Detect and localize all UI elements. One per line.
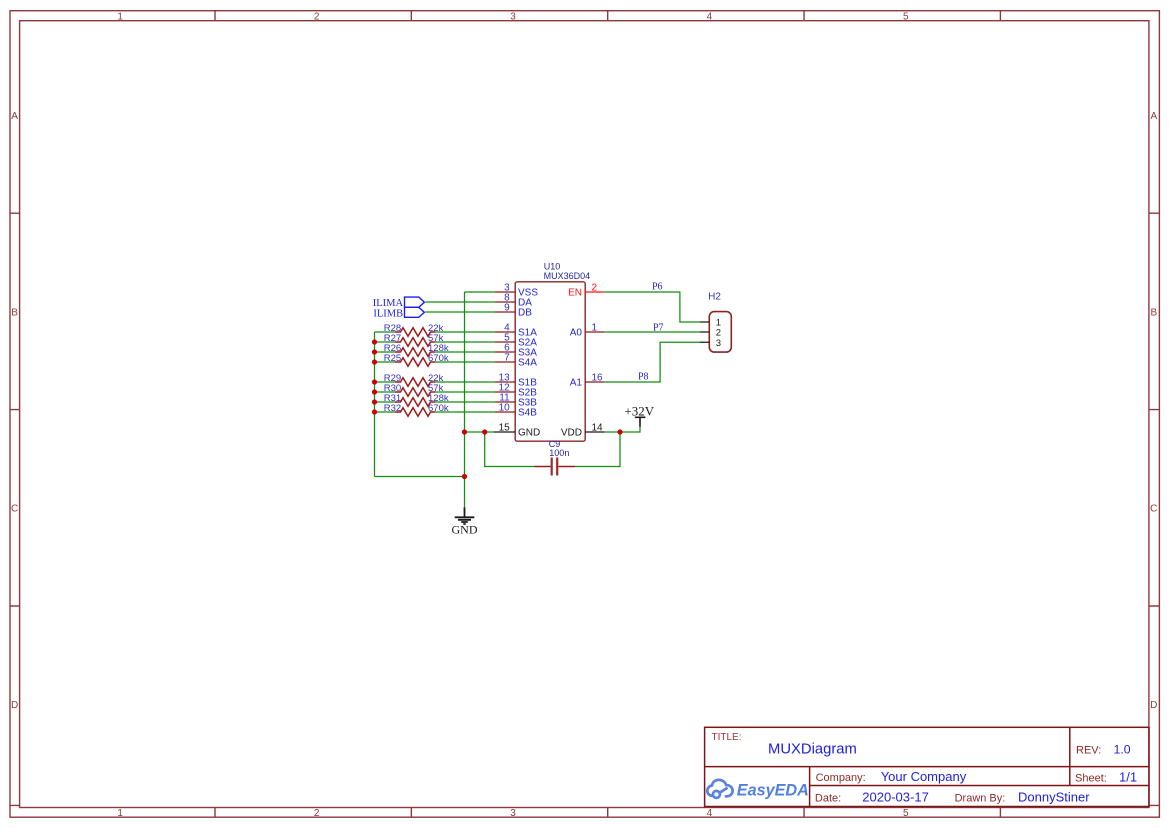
svg-text:7: 7 <box>504 353 510 364</box>
wire VSS net horizontal <box>465 291 496 293</box>
svg-text:R32: R32 <box>384 403 401 414</box>
svg-text:A0: A0 <box>570 328 583 339</box>
junction bus R30 <box>372 389 377 394</box>
resistor R31 <box>384 393 449 406</box>
svg-text:DB: DB <box>518 308 532 319</box>
ruler tick left <box>10 213 20 805</box>
wire R29 to S1B <box>435 381 495 383</box>
junction bus R29 <box>372 379 377 384</box>
svg-text:TITLE:: TITLE: <box>712 732 742 743</box>
svg-text:B: B <box>11 307 18 318</box>
op-amp U10 body <box>515 282 585 441</box>
svg-text:A: A <box>11 111 18 122</box>
svg-text:S4B: S4B <box>518 408 537 419</box>
svg-text:100n: 100n <box>549 448 569 458</box>
ruler tick top <box>215 11 1000 21</box>
svg-text:C: C <box>1150 504 1157 515</box>
svg-text:5: 5 <box>903 12 909 23</box>
flag ILIMB <box>373 307 424 319</box>
resistor R30 <box>384 383 444 396</box>
svg-text:GND: GND <box>452 523 478 537</box>
pin 9 DB <box>495 303 532 319</box>
capacitor C9 <box>535 439 576 476</box>
title row divider <box>705 766 1149 768</box>
other parts <box>373 281 732 536</box>
wire R32 to S4B <box>435 411 495 413</box>
wire R25 left <box>375 361 395 363</box>
ruler tick bottom <box>215 808 1000 818</box>
wire R31 to S3B <box>435 401 495 403</box>
resistor R25 <box>384 353 449 366</box>
svg-text:A1: A1 <box>570 378 583 389</box>
pin 8 DA <box>495 293 532 309</box>
junction bus R31 <box>372 399 377 404</box>
junction gnd row left <box>462 429 467 434</box>
junction gnd row c9 <box>482 429 487 434</box>
power flag +32V <box>624 403 654 427</box>
junction bus bottom <box>462 474 467 479</box>
pin 1 A0 <box>570 323 605 339</box>
svg-text:D: D <box>11 700 18 711</box>
svg-text:P6: P6 <box>652 281 663 292</box>
svg-text:MUXDiagram: MUXDiagram <box>768 742 857 758</box>
svg-text:Date:: Date: <box>815 793 841 805</box>
svg-text:3: 3 <box>716 338 721 349</box>
svg-text:2: 2 <box>592 283 598 294</box>
svg-text:ILIMB: ILIMB <box>373 308 403 319</box>
junction dots <box>372 339 623 479</box>
TITLE BLOCK <box>705 727 1149 806</box>
logo cell divider <box>809 767 811 807</box>
svg-text:B: B <box>1150 307 1157 318</box>
svg-text:P8: P8 <box>638 371 649 382</box>
svg-text:A: A <box>1150 111 1157 122</box>
svg-text:16: 16 <box>592 373 604 384</box>
svg-text:4: 4 <box>707 808 713 819</box>
svg-text:2020-03-17: 2020-03-17 <box>862 790 929 805</box>
ground symbol <box>452 507 478 536</box>
resistor R27 <box>384 333 444 346</box>
wire VDD to +32V <box>605 427 640 432</box>
flag ILIMA <box>373 297 425 309</box>
svg-text:1: 1 <box>117 12 123 23</box>
pin 11 S3B <box>495 393 537 409</box>
svg-text:EN: EN <box>568 288 582 299</box>
svg-text:3: 3 <box>510 12 516 23</box>
EasyEDA logo cloud <box>707 780 732 798</box>
wire R28 left <box>375 331 395 333</box>
wire bus jog to gnd <box>375 476 465 478</box>
pin 3 VSS <box>495 283 538 299</box>
wire left bus vertical <box>374 332 376 477</box>
wire R30 to S2B <box>435 391 495 393</box>
wire P8 net <box>605 342 700 382</box>
svg-text:REV:: REV: <box>1076 744 1101 756</box>
svg-text:4: 4 <box>707 12 713 23</box>
junction bus R27 <box>372 339 377 344</box>
wire R26 left <box>375 351 395 353</box>
svg-text:670k: 670k <box>428 403 449 414</box>
svg-text:C: C <box>11 504 18 515</box>
wire R28 to S1A <box>435 331 495 333</box>
pin 10 S4B <box>495 403 537 419</box>
svg-text:H2: H2 <box>708 292 721 303</box>
IC U10 <box>515 262 590 442</box>
pin 12 S2B <box>495 383 537 399</box>
resistors <box>384 323 449 416</box>
wire R30 left <box>375 391 395 393</box>
wire R27 to S2A <box>435 341 495 343</box>
pin 13 S1B <box>495 373 537 389</box>
junction bus R32 <box>372 409 377 414</box>
wire DA <box>425 301 495 303</box>
svg-text:14: 14 <box>592 423 604 434</box>
connector H2 <box>700 292 731 353</box>
pin 6 S3A <box>495 343 537 359</box>
svg-text:670k: 670k <box>428 353 449 364</box>
resistor R28 <box>384 323 444 336</box>
resistor R29 <box>384 373 444 386</box>
svg-text:MUX36D04: MUX36D04 <box>544 271 591 281</box>
svg-text:15: 15 <box>499 423 511 434</box>
svg-text:Company:: Company: <box>816 772 866 784</box>
pin 4 S1A <box>495 323 537 339</box>
svg-text:9: 9 <box>504 303 510 314</box>
ruler tick right <box>1149 213 1160 805</box>
wire P7 net <box>605 331 700 333</box>
wire VSS-to-GND vertical <box>464 292 466 507</box>
svg-text:2: 2 <box>314 12 320 23</box>
svg-text:+32V: +32V <box>624 403 654 418</box>
resistor R26 <box>384 343 449 356</box>
wire R25 to S4A <box>435 361 495 363</box>
svg-text:D: D <box>1150 700 1157 711</box>
svg-text:Your Company: Your Company <box>881 769 967 784</box>
svg-text:5: 5 <box>903 808 909 819</box>
svg-text:1.0: 1.0 <box>1114 743 1131 757</box>
junction bus R25 <box>372 359 377 364</box>
wire R26 to S3A <box>435 351 495 353</box>
pin 14 VDD <box>561 423 605 439</box>
wire R31 left <box>375 401 395 403</box>
wire C9 left drop <box>485 432 535 467</box>
wire R32 left <box>375 411 395 413</box>
svg-text:R25: R25 <box>384 353 401 364</box>
svg-text:1: 1 <box>592 323 598 334</box>
junction bus R26 <box>372 349 377 354</box>
svg-text:10: 10 <box>499 403 511 414</box>
rev cell divider <box>1069 727 1071 785</box>
wire R27 left <box>375 341 395 343</box>
svg-text:DonnyStiner: DonnyStiner <box>1018 790 1090 805</box>
junction vdd row <box>617 429 622 434</box>
svg-text:1/1: 1/1 <box>1119 770 1137 785</box>
svg-text:Drawn By:: Drawn By: <box>955 793 1006 805</box>
svg-text:EasyEDA: EasyEDA <box>737 781 809 799</box>
pin 5 S2A <box>495 333 537 349</box>
svg-text:GND: GND <box>518 428 540 439</box>
pin 7 S4A <box>495 353 537 369</box>
company/date row divider <box>810 785 1149 787</box>
svg-text:3: 3 <box>510 808 516 819</box>
pin 16 A1 <box>570 373 605 389</box>
pin 15 GND <box>494 423 540 439</box>
pin 2 EN highlighted <box>568 283 605 299</box>
SCHEMATIC WIRES <box>375 292 701 507</box>
svg-text:2: 2 <box>314 808 320 819</box>
svg-text:VDD: VDD <box>561 428 582 439</box>
svg-text:1: 1 <box>117 808 123 819</box>
svg-text:S4A: S4A <box>518 358 537 369</box>
wire GND row <box>465 431 495 433</box>
title block outline <box>705 727 1149 806</box>
wire P6 net <box>605 292 700 322</box>
wire R29 left <box>375 381 395 383</box>
IC pins <box>494 283 605 439</box>
svg-text:P7: P7 <box>653 322 664 333</box>
wire C9 right riser <box>575 432 620 467</box>
svg-text:Sheet:: Sheet: <box>1075 773 1107 785</box>
resistor R32 <box>384 403 449 416</box>
wire DB <box>425 311 495 313</box>
